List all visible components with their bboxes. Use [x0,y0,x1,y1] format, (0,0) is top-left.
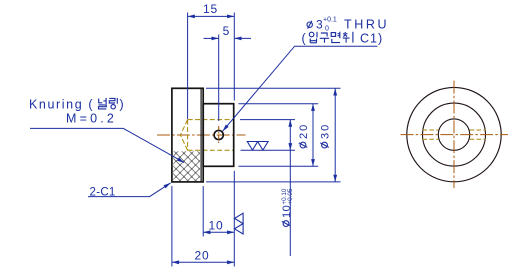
dim text d20 rotated [298,123,310,148]
ext line right face top [233,13,235,101]
ext line right face bottom [233,171,235,267]
ext line hole center (5) [218,35,220,122]
end view outer circle d30 [407,87,501,181]
end view circle d20 [423,103,486,166]
dim line d30 [334,88,336,182]
svg-text:Knuring (: Knuring ( [29,98,94,112]
svg-text:30: 30 [320,123,332,139]
svg-text:): ) [120,98,124,112]
svg-text:10: 10 [281,205,293,218]
dim line d20 [312,104,314,167]
leader 2-C1 [88,183,171,197]
svg-text:3: 3 [316,18,323,32]
note phi3 THRU [307,22,312,27]
chamfer line at step [200,88,202,182]
dim line d10 [289,120,291,256]
svg-text:THRU: THRU [344,18,389,32]
svg-text:20: 20 [195,248,210,262]
end view hidden hole lines [423,130,486,139]
phi3 hole [214,130,223,139]
ext lines d30 [206,87,341,89]
part outline: knurled cylinder d30 [172,88,203,182]
dim text d30 rotated [320,123,332,148]
svg-text:0: 0 [325,26,329,33]
ext lines d10 bore [240,119,295,121]
hole centerline vertical [218,126,220,145]
dim line 20 [172,261,234,263]
surface finish triangles on right ext line (rotated) [235,213,244,234]
svg-text:C1): C1) [360,32,383,46]
dim line 10 [203,231,234,233]
dim text d10 +0.10/+0.05 rotated [281,188,294,226]
ext line bore end (15) [187,13,189,120]
svg-text:5: 5 [223,24,230,38]
dim line 15 [188,15,235,17]
end view centerlines [401,134,509,136]
svg-text:2-C1: 2-C1 [90,186,116,198]
svg-text:20: 20 [298,123,310,139]
leader knurl note [30,128,184,162]
arrowheads [188,15,195,19]
ext line step [202,186,204,237]
svg-text:10: 10 [209,218,224,232]
centerline side view [157,134,246,136]
leader phi3 note [223,46,378,131]
svg-text:15: 15 [203,2,218,16]
svg-text:+0.1: +0.1 [323,17,337,24]
hangul neolling in knurl note [99,98,107,109]
ext lines d20 [239,103,319,105]
svg-text:M=0.2: M=0.2 [66,112,117,126]
dim line 5 [204,37,219,39]
surface finish triangles on bore line [247,142,268,151]
end view circle d10 [438,119,469,150]
small cylinder d20 [203,104,234,167]
svg-text:+0.05: +0.05 [287,188,294,204]
hidden bore phi10 [180,120,233,151]
ext line left face [171,186,173,267]
